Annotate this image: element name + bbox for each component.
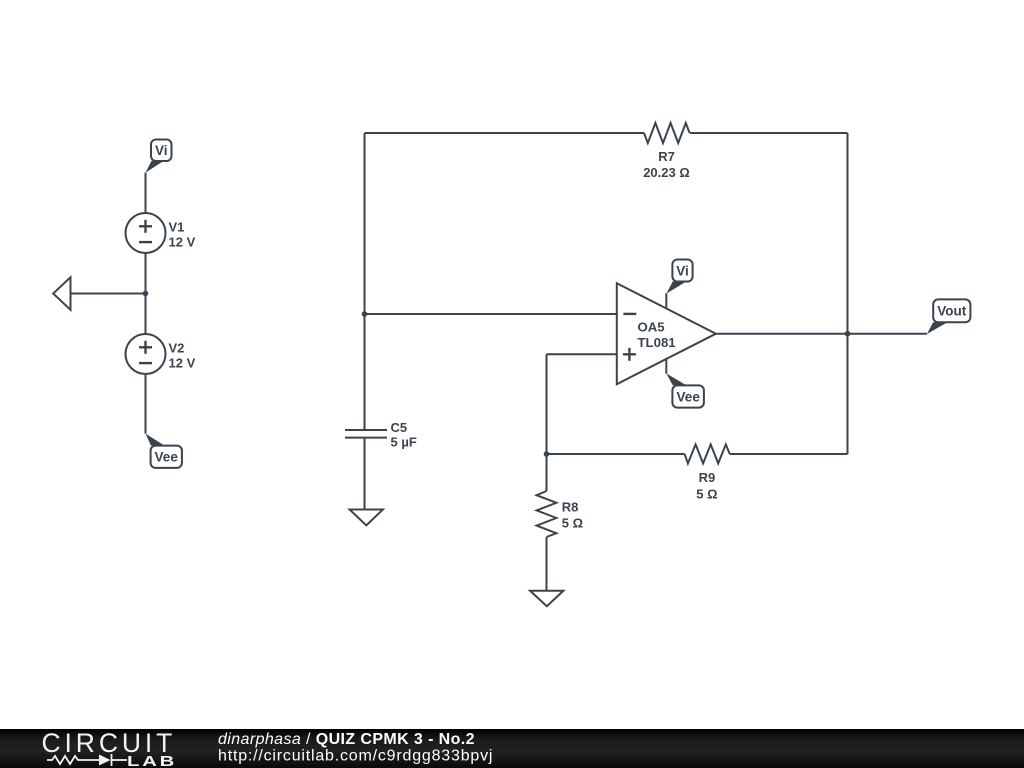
wire left vertical (top loop to C5)	[364, 133, 366, 430]
wire to op-amp inverting input	[365, 313, 617, 315]
CircuitLab logo resistor-diode glyph	[47, 754, 127, 766]
svg-text:12 V: 12 V	[169, 234, 196, 249]
wire V2 to Vee flag	[145, 374, 147, 434]
wire op-amp output	[716, 333, 927, 335]
wire non-inverting input vertical	[546, 354, 548, 454]
node junction dot	[143, 291, 149, 297]
svg-text:TL081: TL081	[638, 335, 676, 350]
wire R9 left segment	[547, 453, 685, 455]
svg-text:5 µF: 5 µF	[391, 434, 417, 449]
ground (below R8)	[530, 591, 563, 607]
svg-text:Vee: Vee	[677, 389, 701, 404]
wire op-amp non-inverting input	[547, 353, 617, 355]
capacitor C5	[345, 420, 417, 450]
svg-text:5 Ω: 5 Ω	[696, 487, 717, 502]
net flag Vee (op-amp V-)	[666, 373, 704, 407]
resistor R8	[537, 491, 583, 537]
wire node to antenna	[71, 293, 146, 295]
svg-text:Vout: Vout	[937, 304, 966, 319]
svg-text:20.23 Ω: 20.23 Ω	[643, 165, 690, 180]
net flag Vi (op-amp V+)	[666, 260, 692, 294]
wire R8 to ground	[546, 537, 548, 591]
svg-text:LAB: LAB	[127, 753, 177, 768]
wire C5 to ground	[364, 438, 366, 510]
svg-text:R8: R8	[562, 499, 579, 514]
node junction dot (output)	[845, 331, 851, 337]
wire op-amp V+ pin	[665, 293, 667, 308]
node junction dot (inverting input)	[362, 311, 368, 317]
svg-text:Vee: Vee	[155, 450, 179, 465]
svg-text:V2: V2	[169, 341, 185, 356]
net flag Vee (left source bottom)	[146, 434, 182, 468]
svg-text:OA5: OA5	[638, 319, 665, 334]
wire top loop right segment	[690, 132, 848, 134]
svg-text:V1: V1	[169, 220, 185, 235]
wire op-amp V- pin	[665, 359, 667, 374]
voltage source V1	[126, 213, 196, 253]
svg-text:dinarphasa / QUIZ CPMK 3 - No.: dinarphasa / QUIZ CPMK 3 - No.2	[218, 731, 475, 748]
node junction dot (feedback node)	[544, 451, 550, 457]
svg-text:Vi: Vi	[155, 143, 168, 158]
wire right vertical (feedback)	[847, 133, 849, 454]
net flag Vout	[927, 299, 971, 334]
voltage source V2	[126, 334, 196, 374]
wire V1 to V2	[145, 253, 147, 334]
svg-text:12 V: 12 V	[169, 355, 196, 370]
svg-text:5 Ω: 5 Ω	[562, 515, 583, 530]
wire node to R8	[546, 454, 548, 491]
wire top loop left segment	[365, 132, 645, 134]
svg-text:R7: R7	[658, 149, 675, 164]
op-amp OA5	[617, 283, 716, 384]
input port arrow	[53, 277, 70, 310]
net flag Vi (left source top)	[146, 140, 172, 173]
wire R9 right segment	[730, 453, 848, 455]
svg-text:http://circuitlab.com/c9rdgg83: http://circuitlab.com/c9rdgg833bpvj	[218, 748, 493, 765]
resistor R7	[643, 123, 690, 180]
wire Vi flag to V1	[145, 173, 147, 214]
ground (below C5)	[350, 510, 383, 526]
svg-text:R9: R9	[699, 470, 716, 485]
svg-text:Vi: Vi	[676, 263, 689, 278]
resistor R9	[685, 444, 730, 501]
svg-text:C5: C5	[391, 420, 408, 435]
